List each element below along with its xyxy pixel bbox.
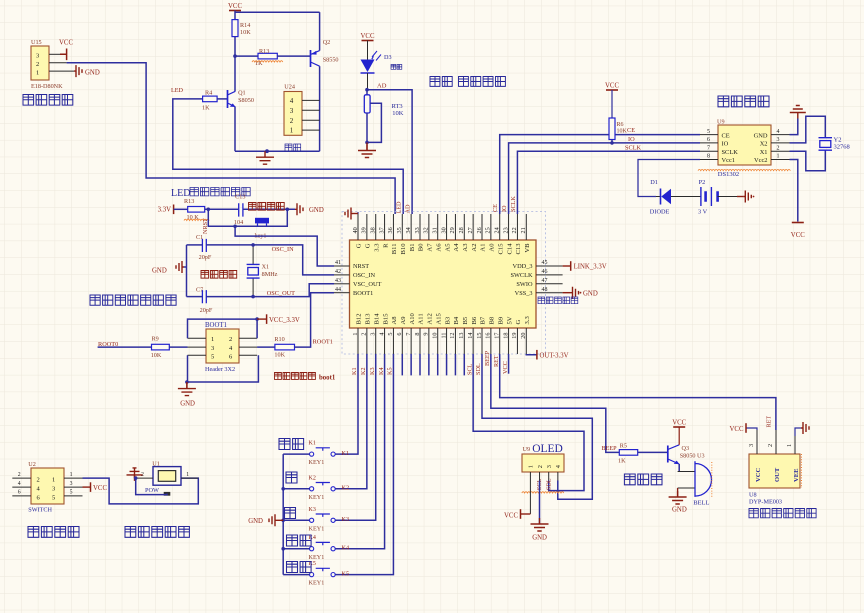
svg-text:3 V: 3 V — [698, 209, 708, 216]
sensor U8 DYP-ME003 — [749, 454, 800, 488]
svg-text:GND: GND — [309, 207, 324, 214]
net labels SCL SDL rotated under MCU — [466, 363, 482, 375]
node OSC_OUT junction — [251, 295, 255, 299]
svg-text:R9: R9 — [152, 336, 159, 343]
svg-text:3: 3 — [52, 486, 55, 493]
svg-text:VCC: VCC — [755, 467, 762, 482]
label program download port — [538, 297, 578, 304]
capacitor C13 104 — [234, 193, 246, 226]
svg-text:RET: RET — [493, 355, 500, 367]
wire R4 to Q1 base — [217, 98, 227, 100]
svg-text:AD: AD — [405, 204, 412, 213]
resistor R10 10K — [274, 336, 294, 359]
buzzer BELL — [678, 461, 712, 506]
wire Vcc1 pin8 to diode — [638, 160, 700, 197]
svg-text:E18-D80NK: E18-D80NK — [31, 83, 63, 90]
wire K4 net MCU pin4 to button — [335, 354, 384, 549]
node U1 pin2 junction — [134, 476, 138, 480]
svg-text:6: 6 — [18, 490, 21, 496]
svg-text:Q1: Q1 — [238, 90, 246, 97]
svg-text:47: 47 — [542, 278, 548, 284]
svg-text:1: 1 — [70, 472, 73, 478]
wire R5 to Q3 base — [638, 451, 668, 453]
ground at U15 pin1 — [74, 65, 100, 77]
wire IO net MCU pin23 to DS1302 — [509, 143, 700, 214]
svg-text:10K: 10K — [274, 352, 285, 359]
svg-text:15: 15 — [476, 333, 483, 339]
svg-text:K3: K3 — [309, 507, 316, 513]
svg-text:K4: K4 — [342, 545, 350, 552]
ground above U1 pin2 — [127, 468, 143, 481]
title MCU minimal system — [90, 295, 176, 305]
wire header top loop VCC_3.3V — [188, 319, 258, 338]
svg-text:4: 4 — [378, 333, 385, 336]
svg-text:RET: RET — [766, 416, 773, 428]
svg-text:SCLK: SCLK — [510, 196, 517, 212]
svg-text:3: 3 — [546, 465, 553, 468]
power module U1 POW — [145, 460, 181, 495]
ground at MCU pin48 — [563, 287, 598, 299]
svg-text:30: 30 — [440, 227, 447, 233]
svg-text:20: 20 — [520, 333, 527, 339]
wire SCLK net MCU pin22 to DS1302 — [517, 151, 700, 214]
svg-text:46: 46 — [542, 269, 548, 275]
push button K4 KEY1 — [283, 535, 335, 561]
svg-text:A4: A4 — [453, 243, 460, 252]
svg-text:KEY1: KEY1 — [309, 580, 325, 587]
wire X1 to crystal — [790, 150, 826, 171]
resistor R13 10K reset — [184, 198, 209, 221]
svg-text:A6: A6 — [435, 243, 442, 252]
svg-text:2: 2 — [36, 61, 39, 68]
net label NRST rotated — [202, 218, 209, 234]
pin stubs U2 left — [12, 472, 31, 496]
svg-text:37: 37 — [378, 227, 385, 233]
svg-text:K5: K5 — [342, 570, 350, 577]
svg-text:5: 5 — [707, 129, 710, 135]
svg-text:2: 2 — [361, 333, 368, 336]
power VCC at U15 — [59, 40, 73, 61]
svg-text:R14: R14 — [240, 22, 250, 29]
power VCC below crystal — [791, 223, 805, 240]
net label BEEP rotated under MCU — [484, 350, 491, 366]
ground above DS1302 — [790, 106, 806, 119]
svg-text:3.3: 3.3 — [524, 316, 531, 325]
transistor Q2 S8550 — [311, 12, 339, 151]
svg-text:GND: GND — [754, 132, 768, 139]
connector U15 E18-D80NK — [31, 39, 63, 90]
svg-text:GND: GND — [532, 535, 547, 542]
svg-text:VCC: VCC — [730, 426, 744, 433]
svg-text:32768: 32768 — [834, 143, 850, 150]
svg-text:IO: IO — [722, 141, 729, 148]
wire DS1302 GND pin4 to ground — [790, 119, 798, 135]
squiggle under DS1302 — [698, 169, 790, 170]
net label K1 — [342, 450, 350, 457]
svg-text:SWIO: SWIO — [516, 281, 533, 288]
clock chip U9 DS1302 — [717, 119, 771, 166]
svg-text:G: G — [515, 320, 522, 325]
svg-text:OSC_IN: OSC_IN — [272, 246, 294, 253]
svg-text:U8: U8 — [749, 492, 757, 499]
MCU right pin stubs 45-48 — [536, 266, 563, 293]
svg-text:B3: B3 — [444, 316, 451, 324]
svg-text:K2: K2 — [360, 367, 367, 375]
svg-text:33: 33 — [414, 227, 421, 233]
svg-text:X1: X1 — [760, 149, 768, 156]
crystal Y2 32768 — [819, 137, 850, 151]
svg-text:B9: B9 — [497, 316, 504, 324]
label photosensitive small — [391, 65, 402, 70]
svg-text:SCLK: SCLK — [625, 145, 642, 152]
svg-text:DYP-ME003: DYP-ME003 — [749, 499, 782, 506]
svg-text:1K: 1K — [202, 105, 210, 112]
net label OSC_OUT — [267, 290, 295, 297]
svg-text:Q2: Q2 — [323, 39, 331, 46]
title power switch — [28, 527, 79, 538]
wire R13b to C13 — [205, 208, 239, 210]
svg-text:42: 42 — [335, 269, 341, 275]
wire R9 to header pin3 — [169, 346, 187, 348]
svg-text:C13: C13 — [515, 243, 522, 255]
svg-text:8: 8 — [414, 333, 421, 336]
svg-text:21: 21 — [520, 227, 527, 233]
svg-text:VCC: VCC — [791, 232, 805, 239]
svg-text:19: 19 — [511, 333, 518, 339]
svg-text:45: 45 — [542, 260, 548, 266]
ground button bus — [248, 514, 283, 526]
svg-text:C1: C1 — [196, 234, 203, 241]
power OUT-3.3V at pin20 — [526, 350, 568, 360]
power VCC_3.3V — [257, 314, 300, 324]
svg-text:BELL: BELL — [693, 500, 709, 507]
node R14/R13 junction — [233, 54, 237, 58]
label minus (jian) — [285, 508, 296, 519]
svg-text:1: 1 — [211, 336, 214, 343]
capacitor C1 20pF — [196, 234, 212, 261]
node header ground junction — [185, 380, 189, 384]
wire top rail VCC to Q2 emitter — [235, 11, 320, 13]
svg-text:9: 9 — [423, 333, 430, 336]
svg-text:G: G — [356, 243, 363, 248]
svg-text:1: 1 — [528, 465, 535, 468]
svg-text:LED: LED — [396, 201, 403, 214]
svg-text:BEEP: BEEP — [602, 445, 618, 452]
pin 3 wire to VCC — [49, 53, 60, 55]
net labels K1-K5 rotated under MCU — [351, 367, 393, 375]
node key1 junction — [233, 225, 237, 229]
power VCC above R6 — [605, 83, 619, 119]
svg-text:A1: A1 — [480, 244, 487, 252]
net label RET at U8 — [766, 416, 773, 428]
svg-text:VCC: VCC — [504, 513, 518, 520]
svg-text:NRST: NRST — [353, 263, 369, 270]
pin stubs U1 — [136, 472, 199, 478]
svg-text:22: 22 — [511, 227, 518, 233]
wire CE net MCU pin24 to DS1302 — [500, 135, 700, 214]
svg-text:27: 27 — [467, 227, 474, 233]
ground at MCU pin40 — [345, 208, 358, 220]
wire header bottom loop — [188, 355, 259, 382]
svg-text:A11: A11 — [418, 313, 425, 324]
power VCC above D3 — [361, 33, 375, 60]
svg-text:BOOT1: BOOT1 — [353, 290, 373, 297]
svg-text:28: 28 — [458, 227, 465, 233]
net label AD — [377, 82, 387, 89]
net label ROOT0 — [98, 341, 118, 348]
svg-text:12: 12 — [449, 333, 456, 339]
svg-text:B10: B10 — [400, 243, 407, 255]
pin stubs DS1302 right — [771, 135, 790, 160]
svg-text:K4: K4 — [378, 367, 385, 375]
wire C13 to GND node — [243, 208, 295, 210]
svg-text:D1: D1 — [650, 179, 658, 186]
svg-text:5: 5 — [52, 494, 55, 501]
svg-text:S8050 U3: S8050 U3 — [680, 453, 705, 460]
svg-text:A0: A0 — [489, 243, 496, 252]
label terminal (duanzi) — [285, 144, 301, 151]
svg-text:10K: 10K — [617, 129, 628, 135]
svg-text:R6: R6 — [617, 122, 624, 128]
title light detection — [430, 77, 505, 87]
svg-text:2: 2 — [777, 145, 780, 151]
power VCC at Q3 — [672, 420, 686, 445]
svg-text:OUT: OUT — [774, 467, 781, 482]
net label LED rotated at pin35 — [396, 201, 403, 214]
svg-text:C15: C15 — [497, 243, 504, 255]
svg-text:7: 7 — [405, 333, 412, 336]
pin stubs header — [188, 338, 258, 355]
svg-text:A15: A15 — [435, 312, 442, 324]
connector U24 LED terminal — [284, 84, 302, 136]
svg-text:K2: K2 — [342, 485, 350, 492]
wire OSC_OUT line — [187, 284, 335, 297]
svg-text:Vcc1: Vcc1 — [722, 157, 735, 164]
svg-text:44: 44 — [335, 287, 341, 293]
display U9 OLED — [522, 443, 564, 472]
wire K2 net MCU pin2 to button — [335, 354, 367, 489]
svg-text:VB: VB — [524, 243, 531, 253]
label boot mode note — [275, 373, 336, 382]
resistor R14 10K — [232, 20, 251, 37]
wire U1 pin2 loop — [136, 478, 167, 495]
net label AD rotated at pin34 — [405, 204, 412, 213]
svg-text:1: 1 — [52, 477, 55, 484]
svg-text:OLED: OLED — [532, 443, 563, 455]
title LED light control section — [171, 188, 250, 200]
net label ROOT1 — [313, 338, 333, 345]
wire D1 to battery — [671, 196, 701, 198]
pin numbers U8 — [748, 444, 793, 447]
svg-text:R: R — [382, 243, 389, 248]
wire R6 to IO line — [610, 140, 614, 145]
resistor R6 10K — [609, 118, 628, 140]
svg-text:A2: A2 — [471, 244, 478, 252]
svg-text:B0: B0 — [418, 243, 425, 251]
wire BEEP net MCU pin16 to R5 — [491, 354, 619, 452]
svg-text:31: 31 — [432, 227, 439, 233]
net labels CE IO SCLK rotated at pins 24-22 — [492, 196, 517, 212]
svg-text:K2: K2 — [309, 475, 316, 481]
svg-text:GND: GND — [180, 401, 195, 408]
svg-text:ROOT1: ROOT1 — [313, 338, 333, 345]
svg-text:X1: X1 — [262, 263, 270, 270]
svg-text:GND: GND — [152, 268, 167, 275]
title clock chip (shizhong xinpian) — [718, 96, 769, 107]
svg-text:3: 3 — [290, 107, 294, 115]
svg-text:Q3: Q3 — [682, 445, 690, 452]
svg-text:3: 3 — [36, 53, 39, 60]
svg-text:SWCLK: SWCLK — [510, 272, 532, 279]
svg-text:17: 17 — [494, 333, 501, 339]
svg-text:3.3: 3.3 — [373, 243, 380, 252]
svg-text:2: 2 — [18, 472, 21, 478]
svg-text:SWITCH: SWITCH — [28, 506, 52, 513]
svg-text:2: 2 — [767, 444, 774, 447]
wire LED net R4 to MCU pin35 — [173, 99, 403, 214]
ground oscillator — [152, 261, 187, 275]
svg-text:VCC: VCC — [502, 361, 509, 374]
svg-text:R13: R13 — [184, 198, 194, 205]
wire battery to ground — [718, 196, 737, 198]
svg-text:U24: U24 — [284, 84, 295, 91]
svg-text:3: 3 — [70, 481, 73, 487]
svg-text:18: 18 — [502, 333, 509, 339]
svg-text:6: 6 — [707, 137, 710, 143]
MCU top pin numbers — [352, 227, 527, 233]
svg-text:C7: C7 — [196, 287, 203, 294]
net label BEEP at R5 — [602, 445, 618, 452]
svg-text:5: 5 — [387, 333, 394, 336]
battery P2 3V — [698, 179, 718, 216]
power VCC at U8 — [730, 423, 757, 433]
label add (jia) — [286, 472, 297, 483]
svg-text:A7: A7 — [427, 243, 434, 252]
wire Q3 emitter to bell — [678, 464, 680, 472]
label auto (zidong) — [287, 535, 312, 546]
svg-text:B14: B14 — [373, 313, 380, 325]
ground at bell — [669, 488, 687, 514]
svg-text:20pF: 20pF — [200, 307, 213, 314]
net label K2 — [342, 485, 350, 492]
svg-text:R4: R4 — [205, 90, 212, 97]
svg-text:VCC: VCC — [93, 485, 107, 492]
push button K2 KEY1 — [283, 475, 335, 501]
svg-text:GND: GND — [583, 291, 598, 298]
MCU right pin numbers — [542, 260, 548, 293]
wire 3.3V to R13b — [174, 208, 188, 210]
net labels CE IO SCLK mid-wire — [625, 127, 642, 152]
svg-text:B4: B4 — [453, 316, 460, 324]
svg-text:C14: C14 — [506, 243, 513, 255]
power VCC at OLED pin1 — [504, 481, 530, 520]
thermistor RT3 10K — [364, 90, 404, 143]
svg-text:SCL: SCL — [466, 363, 473, 375]
net label K4 — [342, 545, 350, 552]
svg-text:KEY1: KEY1 — [309, 459, 325, 466]
svg-text:K1: K1 — [309, 441, 316, 447]
push button K3 KEY1 — [283, 507, 335, 533]
svg-text:KEY1: KEY1 — [309, 554, 325, 561]
svg-text:AD: AD — [377, 82, 387, 89]
net label K3 — [342, 516, 350, 523]
svg-text:B7: B7 — [480, 316, 487, 324]
svg-text:36: 36 — [387, 227, 394, 233]
svg-text:G: G — [365, 243, 372, 248]
svg-text:39: 39 — [361, 227, 368, 233]
svg-text:1: 1 — [786, 444, 793, 447]
svg-text:2: 2 — [37, 477, 40, 484]
svg-text:SDL: SDL — [545, 478, 552, 490]
MCU bottom inner labels — [356, 312, 531, 324]
ground below RT3 — [358, 142, 376, 157]
svg-text:K1: K1 — [342, 450, 350, 457]
pin stubs U24 — [302, 100, 320, 130]
MCU bottom pin stubs 1-20 — [358, 328, 526, 354]
net label RET rotated under MCU — [493, 355, 500, 367]
MCU U-chip body — [350, 240, 537, 328]
svg-text:IO: IO — [628, 136, 635, 143]
svg-text:1: 1 — [186, 472, 189, 478]
svg-text:20pF: 20pF — [199, 254, 212, 261]
header BOOT1 3X2 — [205, 322, 239, 373]
svg-text:U2: U2 — [28, 461, 36, 468]
svg-text:OSC_IN: OSC_IN — [353, 272, 375, 279]
svg-text:B12: B12 — [356, 314, 363, 325]
pin numbers DS1302 right — [777, 129, 780, 160]
wire NRST to MCU pin41 — [235, 226, 334, 266]
svg-text:VEE: VEE — [793, 468, 800, 482]
svg-text:VSS_3: VSS_3 — [515, 290, 533, 297]
node reset right junction — [286, 208, 290, 212]
svg-text:10K: 10K — [392, 110, 404, 117]
svg-text:4: 4 — [777, 129, 780, 135]
svg-text:10: 10 — [432, 333, 439, 339]
svg-text:BOOT1: BOOT1 — [205, 322, 227, 329]
svg-text:DS1302: DS1302 — [718, 171, 739, 178]
svg-text:3: 3 — [211, 345, 214, 352]
svg-text:DIODE: DIODE — [650, 209, 670, 216]
wire stubs MCU pins 6-13 — [402, 354, 464, 375]
wire SDA net MCU pin15 to OLED pin4 — [482, 354, 592, 499]
push button K1 KEY1 — [283, 441, 335, 467]
MCU left inner labels — [353, 263, 381, 297]
node bottom rail junction — [265, 149, 269, 153]
svg-text:R13: R13 — [259, 48, 269, 55]
svg-text:CE: CE — [627, 127, 635, 134]
power VCC at U2 pin3 — [83, 482, 108, 492]
pin 1 wire to GND — [49, 70, 74, 72]
svg-text:1: 1 — [36, 70, 39, 77]
wire R13 to Q2 base — [277, 55, 310, 57]
label set (shezhi) — [279, 439, 304, 450]
svg-text:B15: B15 — [382, 313, 389, 325]
svg-text:U15: U15 — [31, 39, 42, 46]
wire R14 bottom to Q1 collector — [234, 37, 236, 92]
net label OSC_IN — [272, 246, 294, 253]
wire R10 to MCU pin44 BOOT1 net — [295, 293, 335, 347]
svg-text:3: 3 — [370, 333, 377, 336]
svg-text:1: 1 — [777, 154, 780, 160]
MCU left pin stubs 41-44 — [334, 266, 350, 293]
pin numbers DS1302 left — [707, 129, 710, 160]
svg-text:S8050: S8050 — [238, 97, 254, 104]
title power input — [125, 527, 189, 538]
svg-text:10K: 10K — [151, 352, 162, 359]
svg-text:A8: A8 — [391, 316, 398, 325]
power 3.3V port — [158, 205, 174, 215]
svg-text:14: 14 — [467, 333, 474, 339]
